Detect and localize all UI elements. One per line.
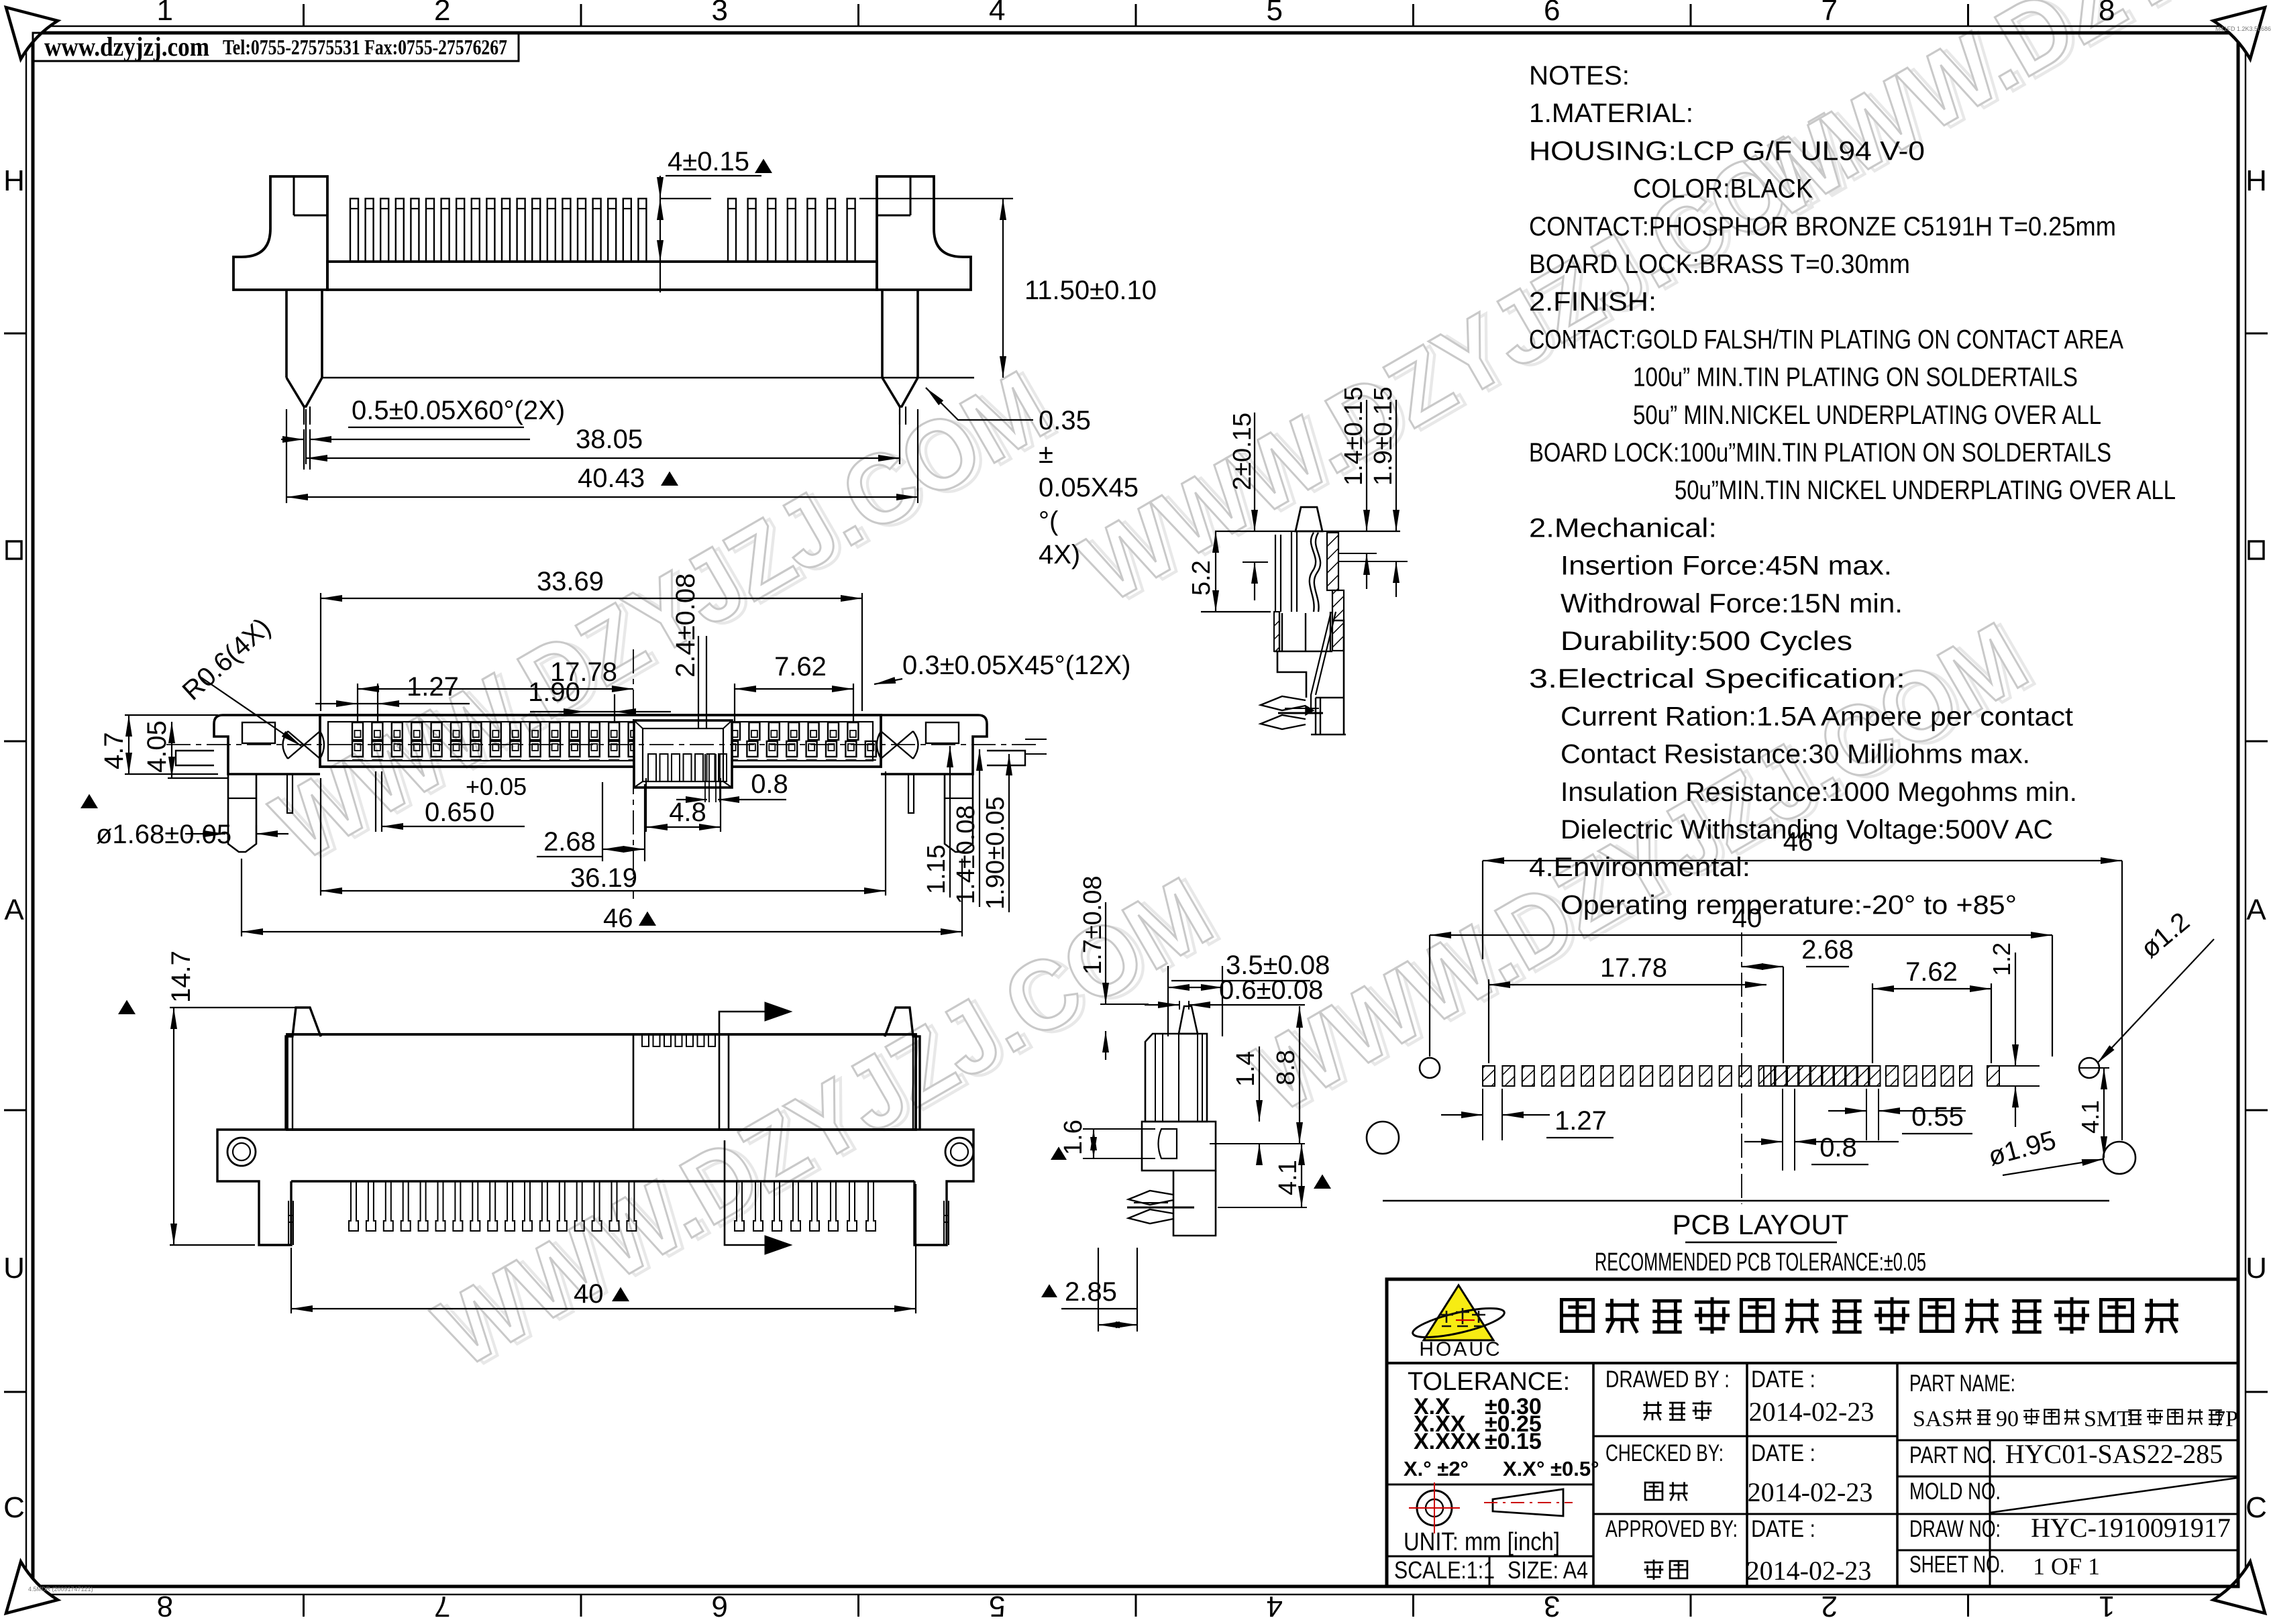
svg-text:4.Environmental:: 4.Environmental: — [1529, 853, 1750, 882]
svg-text:U: U — [2246, 1252, 2267, 1285]
svg-text:1.27: 1.27 — [407, 672, 459, 702]
svg-text:C: C — [3, 1491, 25, 1524]
svg-text:H: H — [3, 164, 25, 197]
svg-text:5.2: 5.2 — [1187, 560, 1216, 596]
svg-text:Insulation Resistance:1000 M: Insulation Resistance:1000 Megohms min. — [1561, 777, 2077, 807]
svg-text:2: 2 — [1821, 1590, 1838, 1621]
svg-text:2014-02-23: 2014-02-23 — [1748, 1477, 1873, 1507]
svg-text:46: 46 — [1783, 827, 1813, 857]
svg-text:50u” MIN.NICKEL UNDERPLATING: 50u” MIN.NICKEL UNDERPLATING OVER ALL — [1633, 400, 2101, 430]
svg-text:2.68: 2.68 — [1801, 935, 1854, 965]
svg-text:BOARD LOCK:BRASS T=0.30mm: BOARD LOCK:BRASS T=0.30mm — [1529, 250, 1910, 279]
svg-text:Current Ration:1.5A Ampere: Current Ration:1.5A Ampere per contact — [1561, 702, 2073, 731]
svg-text:H: H — [2246, 164, 2267, 197]
PCB LAYOUT — [1483, 1066, 1495, 1086]
svg-text:46: 46 — [603, 904, 633, 933]
svg-text:3: 3 — [1544, 1590, 1560, 1621]
svg-text:PCB LAYOUT: PCB LAYOUT — [1673, 1209, 1849, 1240]
svg-text:2.FINISH:: 2.FINISH: — [1529, 287, 1656, 317]
svg-text:U: U — [3, 1252, 25, 1285]
svg-text:C: C — [2246, 1491, 2267, 1524]
svg-text:A: A — [4, 894, 24, 926]
svg-text:4.7: 4.7 — [99, 732, 129, 769]
svg-text:HOUSING:LCP G/F UL94 V-0: HOUSING:LCP G/F UL94 V-0 — [1529, 136, 1925, 166]
svg-text:A: A — [2246, 894, 2266, 926]
svg-text:RECOMMENDED PCB TOLERANCE:±0: RECOMMENDED PCB TOLERANCE:±0.05 — [1595, 1248, 1926, 1277]
svg-text:Operating remperature:-20° t: Operating remperature:-20° to +85° — [1561, 890, 2017, 920]
svg-text:7: 7 — [434, 1590, 450, 1621]
svg-text:X.X° ±0.5°: X.X° ±0.5° — [1503, 1457, 1599, 1480]
svg-text:NOTES:: NOTES: — [1529, 61, 1630, 91]
header website box — [33, 33, 519, 61]
svg-text:2.68: 2.68 — [543, 827, 596, 857]
svg-text:0.35: 0.35 — [1039, 406, 1091, 435]
svg-text:4.5MDR (20091747121): 4.5MDR (20091747121) — [28, 1586, 93, 1592]
svg-text:SMT: SMT — [2084, 1407, 2131, 1431]
SECTION VIEW — [1215, 531, 1400, 532]
svg-text:2.Mechanical:: 2.Mechanical: — [1529, 513, 1717, 543]
svg-text:Durability:500 Cycles: Durability:500 Cycles — [1561, 627, 1852, 656]
svg-text:1.90: 1.90 — [528, 678, 580, 707]
svg-text:X.° ±2°: X.° ±2° — [1404, 1457, 1469, 1480]
svg-text:1.MATERIAL:: 1.MATERIAL: — [1529, 99, 1693, 128]
svg-text:4X): 4X) — [1039, 540, 1080, 570]
corner mark bottom-left — [6, 1562, 58, 1613]
svg-text:1.27: 1.27 — [1554, 1106, 1607, 1136]
svg-text:0.65: 0.65 — [425, 798, 477, 827]
TITLE BLOCK — [1387, 1279, 2238, 1586]
svg-text:4±0.15: 4±0.15 — [668, 147, 749, 176]
svg-text:0: 0 — [480, 798, 494, 827]
svg-text:DRAW NO:: DRAW NO: — [1909, 1516, 2001, 1542]
TOP VIEW — [320, 715, 881, 767]
svg-text:40.43: 40.43 — [578, 464, 645, 493]
svg-text:6: 6 — [712, 1590, 728, 1621]
svg-text:1.9±0.15: 1.9±0.15 — [1369, 386, 1397, 486]
corner mark top-right — [2213, 7, 2265, 59]
svg-text:3.Electrical Specification:: 3.Electrical Specification: — [1529, 664, 1905, 694]
svg-text:2014-02-23: 2014-02-23 — [1746, 1556, 1872, 1586]
svg-text:3: 3 — [712, 0, 728, 27]
svg-text:SIZE: A4: SIZE: A4 — [1508, 1556, 1588, 1584]
svg-text:www.dzyjzj.com: www.dzyjzj.com — [44, 32, 209, 62]
BOTTOM VIEW — [287, 1034, 916, 1130]
svg-text:8.8: 8.8 — [1272, 1050, 1300, 1085]
svg-text:4: 4 — [989, 0, 1005, 27]
svg-text:APPROVED BY:: APPROVED BY: — [1605, 1516, 1738, 1542]
svg-text:1.7±0.08: 1.7±0.08 — [1079, 875, 1107, 975]
svg-text:°(: °( — [1039, 506, 1059, 536]
svg-text:CONTACT:PHOSPHOR BRONZE C519: CONTACT:PHOSPHOR BRONZE C5191H T=0.25mm — [1529, 212, 2116, 241]
svg-text:2: 2 — [434, 0, 450, 27]
svg-text:HYC01-SAS22-285: HYC01-SAS22-285 — [2005, 1439, 2223, 1469]
svg-text:SHEET NO.: SHEET NO. — [1909, 1552, 2005, 1578]
svg-text:0.6±0.08: 0.6±0.08 — [1219, 975, 1323, 1005]
svg-text:COLOR:BLACK: COLOR:BLACK — [1633, 174, 1813, 204]
svg-text:7: 7 — [1821, 0, 1838, 27]
svg-text:±: ± — [1039, 439, 1053, 469]
svg-text:7.62: 7.62 — [1905, 957, 1958, 987]
svg-text:5: 5 — [989, 1590, 1005, 1621]
svg-text:2.4±0.08: 2.4±0.08 — [671, 574, 700, 678]
svg-text:Withdrowal Force:15N min.: Withdrowal Force:15N min. — [1561, 589, 1903, 618]
svg-text:TOLERANCE:: TOLERANCE: — [1408, 1368, 1570, 1396]
FRONT VIEW — [233, 176, 327, 290]
svg-text:0.3±0.05X45°(12X): 0.3±0.05X45°(12X) — [902, 651, 1130, 680]
svg-text:7P: 7P — [2214, 1407, 2238, 1431]
svg-text:Contact Resistance:30 Millio: Contact Resistance:30 Milliohms max. — [1561, 740, 2030, 769]
svg-text:Insertion Force:45N max.: Insertion Force:45N max. — [1561, 551, 1892, 581]
svg-text:4.1: 4.1 — [2076, 1100, 2104, 1134]
svg-text:MOLD NO.: MOLD NO. — [1909, 1478, 2001, 1505]
svg-text:CONTACT:GOLD FALSH/TIN PLATI: CONTACT:GOLD FALSH/TIN PLATING ON CONTAC… — [1529, 325, 2123, 354]
svg-text:100u” MIN.TIN PLATING ON S: 100u” MIN.TIN PLATING ON SOLDERTAILS — [1633, 363, 2078, 392]
svg-text:1 OF 1: 1 OF 1 — [2033, 1553, 2100, 1580]
svg-text:HOAUC: HOAUC — [1419, 1338, 1501, 1360]
svg-text:4.8: 4.8 — [669, 798, 706, 827]
svg-text:UNIT: mm [inch]: UNIT: mm [inch] — [1404, 1528, 1560, 1556]
svg-text:1.4±0.15: 1.4±0.15 — [1340, 386, 1368, 486]
svg-text:90: 90 — [1996, 1407, 2019, 1431]
svg-text:1.4±0.08: 1.4±0.08 — [952, 805, 980, 904]
svg-text:36.19: 36.19 — [570, 863, 637, 893]
svg-text:14.7: 14.7 — [166, 951, 196, 1003]
svg-text:PART NAME:: PART NAME: — [1909, 1370, 2015, 1397]
svg-text:4: 4 — [1267, 1590, 1283, 1621]
svg-text:DATE :: DATE : — [1751, 1366, 1815, 1393]
svg-text:40: 40 — [574, 1279, 604, 1309]
svg-text:HYC-1910091917: HYC-1910091917 — [2031, 1513, 2231, 1543]
svg-text:SCALE:1:1: SCALE:1:1 — [1394, 1556, 1495, 1584]
svg-text:CHECKED BY:: CHECKED BY: — [1605, 1440, 1724, 1466]
svg-text:±0.15: ±0.15 — [1485, 1429, 1542, 1454]
svg-text:2014-02-23: 2014-02-23 — [1749, 1397, 1874, 1427]
svg-text:5: 5 — [1267, 0, 1283, 27]
svg-text:17.78: 17.78 — [1600, 953, 1667, 983]
svg-text:11.50±0.10: 11.50±0.10 — [1024, 276, 1157, 305]
svg-text:DATE :: DATE : — [1751, 1516, 1815, 1542]
svg-text:X.XXX: X.XXX — [1414, 1429, 1481, 1454]
svg-text:1: 1 — [2099, 1590, 2115, 1621]
svg-text:DATE :: DATE : — [1751, 1440, 1815, 1466]
svg-text:0.05X45: 0.05X45 — [1039, 473, 1139, 502]
svg-text:0.55: 0.55 — [1911, 1102, 1964, 1132]
svg-text:1.90±0.05: 1.90±0.05 — [982, 796, 1010, 910]
svg-text:0.8: 0.8 — [751, 769, 788, 799]
svg-text:2.85: 2.85 — [1065, 1277, 1117, 1307]
svg-text:50u”MIN.TIN NICKEL UNDERPLAT: 50u”MIN.TIN NICKEL UNDERPLATING OVER ALL — [1675, 476, 2176, 505]
svg-text:1: 1 — [157, 0, 173, 27]
corner mark top-left — [6, 7, 58, 59]
corner mark bottom-right — [2213, 1562, 2265, 1613]
svg-text:1.2: 1.2 — [1988, 942, 2015, 976]
svg-text:SAS: SAS — [1913, 1407, 1954, 1431]
svg-text:PART NO.: PART NO. — [1909, 1442, 1997, 1468]
svg-text:BOARD LOCK:100u”MIN.TIN PLAT: BOARD LOCK:100u”MIN.TIN PLATION ON SOLDE… — [1529, 438, 2111, 468]
svg-text:0.5±0.05X60°(2X): 0.5±0.05X60°(2X) — [352, 396, 565, 425]
svg-text:M41FD 1.2K3.5L6866: M41FD 1.2K3.5L6866 — [2215, 25, 2271, 32]
svg-text:40: 40 — [1732, 904, 1762, 933]
svg-text:4.1: 4.1 — [1274, 1160, 1302, 1195]
svg-text:8: 8 — [157, 1590, 173, 1621]
svg-text:7.62: 7.62 — [774, 652, 827, 682]
svg-text:6: 6 — [1544, 0, 1560, 27]
svg-text:38.05: 38.05 — [576, 425, 643, 454]
svg-text:1.15: 1.15 — [922, 845, 951, 894]
svg-text:1.6: 1.6 — [1059, 1120, 1088, 1155]
svg-text:8: 8 — [2099, 0, 2115, 27]
svg-text:DRAWED BY :: DRAWED BY : — [1605, 1366, 1730, 1393]
svg-text:33.69: 33.69 — [537, 567, 604, 596]
svg-text:4.05: 4.05 — [142, 720, 172, 773]
svg-text:1.4: 1.4 — [1232, 1051, 1260, 1087]
svg-text:0.8: 0.8 — [1819, 1133, 1857, 1162]
svg-text:+0.05: +0.05 — [466, 773, 527, 800]
svg-text:2±0.15: 2±0.15 — [1228, 413, 1257, 490]
svg-text:Tel:0755-27575531 Fax:0755-27: Tel:0755-27575531 Fax:0755-27576267 — [223, 35, 507, 59]
